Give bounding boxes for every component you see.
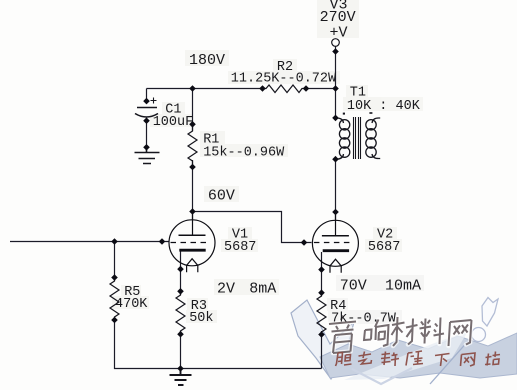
- node C1 top pin: [143, 98, 150, 105]
- watermark exclamation circle: [472, 328, 486, 342]
- watermark char 材: [392, 317, 418, 346]
- V1 cathode bar: [179, 249, 205, 252]
- svg-text:7k--0.7W: 7k--0.7W: [331, 311, 397, 326]
- halo R5: [121, 285, 141, 297]
- watermark big text glow: [329, 316, 472, 354]
- char 旗: [406, 351, 423, 366]
- watermark char 网: [449, 320, 472, 346]
- node R3 bottom pin: [177, 331, 184, 338]
- halo R3: [187, 298, 208, 311]
- svg-text:10mA: 10mA: [385, 278, 421, 295]
- halo 470K: [112, 296, 149, 309]
- resistor R1 (vertical zigzag): [188, 124, 197, 167]
- wire: input line: [10, 241, 170, 243]
- V1 heater: [187, 259, 198, 273]
- node C1 ground: [143, 144, 150, 151]
- V1 plate lead: [192, 212, 194, 236]
- watermark band white streak: [344, 331, 468, 380]
- watermark thin slash: [430, 331, 477, 384]
- V1 plate bar: [179, 234, 206, 236]
- node V2 grid pin: [301, 239, 308, 246]
- char 网: [461, 353, 476, 366]
- resistor R5 (vertical zigzag): [110, 278, 119, 321]
- node V1 plate junction: [189, 208, 196, 215]
- svg-text:15k--0.96W: 15k--0.96W: [203, 146, 285, 161]
- capacitor C1 plus sign: [151, 98, 157, 104]
- watermark exclamation body: [482, 298, 498, 327]
- node V2 cathode: [318, 266, 325, 273]
- node bottom rail ground junction: [177, 365, 184, 372]
- halo R2: [273, 59, 297, 72]
- watermark main band: [320, 333, 517, 378]
- V1 grid dashes: [171, 242, 207, 244]
- node top rail / R1 branch: [189, 85, 196, 92]
- halo 2V 8mA: [214, 279, 279, 295]
- T1 primary connector top: [336, 118, 343, 123]
- halo R1: [200, 131, 225, 144]
- char 艺: [358, 352, 372, 365]
- wire: V1 cathode down through R3: [180, 251, 182, 295]
- watermark chevron below band: [352, 368, 412, 384]
- node input / R5 junction: [111, 238, 118, 245]
- node V1 grid pin: [159, 238, 166, 245]
- char 胆: [336, 353, 352, 367]
- T1 phase mark secondary: [369, 112, 372, 114]
- watermark swoosh left check: [291, 300, 354, 379]
- wire: R4 bottom to bottom rail corner: [321, 331, 323, 369]
- char 下: [435, 354, 450, 367]
- halo V3 block: [317, 0, 359, 38]
- node R2 right pin: [303, 85, 310, 92]
- node R2 left pin: [259, 85, 266, 92]
- watermark char 料: [420, 318, 445, 345]
- wire: R5 bottom to bottom rail: [115, 317, 322, 369]
- node R4 top pin: [318, 289, 325, 296]
- halo 70V 10mA: [336, 275, 424, 291]
- node R1 top pin: [189, 121, 196, 128]
- node R3 top pin: [177, 288, 184, 295]
- T1 core lines: [354, 117, 361, 159]
- node C1 bottom pin: [143, 117, 150, 124]
- V2 heater: [330, 259, 341, 273]
- svg-text:180V: 180V: [189, 52, 225, 69]
- wire: +V down to T1 primary top: [335, 46, 337, 118]
- svg-text:5687: 5687: [224, 240, 256, 255]
- capacitor C1 top plate: [137, 107, 157, 109]
- node below +V: [332, 48, 339, 55]
- T1 primary loops: [339, 120, 349, 130]
- wire: R3 bottom to bottom rail: [180, 331, 182, 369]
- node R5 bottom pin: [111, 317, 118, 324]
- svg-text:60V: 60V: [208, 188, 235, 205]
- node top rail / main vertical: [332, 85, 339, 92]
- node R4 bottom pin: [318, 331, 325, 338]
- wire: R1 bottom to V1 top: [192, 160, 194, 220]
- char 轩: [381, 352, 399, 367]
- ground under C1: [135, 147, 160, 163]
- svg-text:11.25K--0.72W: 11.25K--0.72W: [231, 72, 337, 87]
- halo 50k: [186, 310, 217, 323]
- halo 180V: [185, 50, 229, 66]
- halo 60V: [204, 186, 239, 202]
- svg-text:50k: 50k: [189, 311, 213, 326]
- V2 plate bar: [322, 235, 349, 237]
- halo 5687 V1: [221, 239, 258, 252]
- svg-text:+V: +V: [330, 25, 348, 42]
- halo C1: [162, 102, 185, 115]
- svg-text:470K: 470K: [115, 297, 148, 312]
- wire: T1 primary bottom to V2 plate: [335, 159, 337, 221]
- svg-text:5687: 5687: [368, 240, 400, 255]
- wire: V2 cathode down to R4: [321, 252, 323, 296]
- halo R4 value: [328, 310, 402, 324]
- T1 phase mark primary: [343, 113, 345, 115]
- V2 cathode bar: [323, 249, 349, 252]
- halo R4: [327, 298, 348, 311]
- halo V1: [228, 227, 252, 240]
- node V2 plate junction: [332, 209, 339, 216]
- wire: R5 branch down: [114, 242, 116, 282]
- wire: R2 right to main vertical: [306, 88, 336, 90]
- T1 secondary connector + stub top: [372, 118, 380, 123]
- halo T1 ratio: [343, 97, 423, 111]
- V2 plate lead: [335, 212, 337, 236]
- wire: C1 bottom to ground: [146, 119, 148, 153]
- resistor R3 (vertical zigzag): [176, 291, 185, 334]
- node R1 bottom pin: [189, 164, 196, 171]
- svg-text:70V: 70V: [340, 278, 367, 295]
- wire: top rail C1 corner to R2 left: [147, 88, 263, 90]
- node T1 primary bottom pin: [332, 156, 339, 163]
- halo R1 value: [200, 144, 288, 157]
- watermark char 响: [364, 320, 389, 347]
- resistor R2 (horizontal zigzag): [263, 85, 307, 93]
- halo V2: [373, 227, 397, 240]
- V2 grid dashes: [314, 242, 350, 244]
- ground at bottom rail: [170, 369, 192, 386]
- capacitor C1 bottom curved plate: [135, 114, 158, 118]
- wire: C1 branch down from top rail: [146, 89, 148, 104]
- node V1 cathode: [177, 266, 184, 273]
- resistor R4 (vertical zigzag): [317, 293, 326, 335]
- svg-text:100uF: 100uF: [153, 115, 194, 130]
- node T1 primary top pin: [332, 115, 339, 122]
- node R5 top pin: [111, 274, 118, 281]
- V2 envelope circle: [312, 220, 358, 266]
- svg-text:2V: 2V: [217, 281, 235, 298]
- T1 secondary connector + stub bottom: [372, 154, 380, 159]
- watermark char 音: [329, 316, 356, 354]
- svg-text:10K : 40K: 10K : 40K: [347, 99, 421, 114]
- svg-text:8mA: 8mA: [249, 281, 276, 298]
- wire: V1 plate to V2 grid link: [193, 212, 312, 243]
- halo R2 value: [228, 71, 340, 84]
- halo 5687 V2: [365, 239, 402, 252]
- T1 secondary loops: [366, 120, 376, 130]
- halo T1: [346, 85, 368, 98]
- V1 envelope circle: [169, 220, 215, 266]
- T1 primary connector bottom: [336, 154, 343, 159]
- char 站: [485, 352, 500, 366]
- +V terminal circle: [332, 39, 340, 47]
- halo 100uF: [150, 114, 193, 127]
- wire: R1 branch from top rail: [192, 89, 194, 132]
